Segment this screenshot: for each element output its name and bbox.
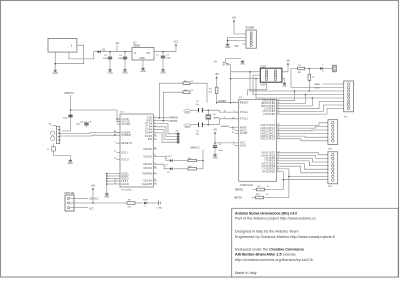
power +5V R1 xyxy=(215,74,220,81)
svg-text:+5V: +5V xyxy=(213,130,218,132)
svg-text:PWR: PWR xyxy=(143,199,148,201)
svg-text:GND: GND xyxy=(160,73,165,75)
wire PD2 to JP4 xyxy=(280,166,328,173)
node M8AREF xyxy=(221,125,235,128)
svg-text:M8TXD: M8TXD xyxy=(234,197,242,199)
title block text xyxy=(235,211,336,275)
ground jack xyxy=(53,68,58,75)
svg-text:GND: GND xyxy=(107,73,112,75)
wire RESET net xyxy=(216,94,239,104)
svg-text:VIN: VIN xyxy=(235,46,239,48)
wire PB3 riser xyxy=(280,97,313,106)
svg-text:16MHz: 16MHz xyxy=(213,117,220,119)
wire R11 to PD0 riser xyxy=(265,179,285,190)
resistor R9 470 xyxy=(127,200,144,209)
wire PD3 to JP4 xyxy=(280,164,328,170)
svg-text:AGND: AGND xyxy=(240,132,248,135)
svg-text:RESET: RESET xyxy=(240,103,249,105)
wire R12 to PD1 riser xyxy=(264,176,290,198)
ground power LED xyxy=(158,201,163,210)
svg-text:M8RXD: M8RXD xyxy=(235,189,243,191)
diode D1 xyxy=(98,49,107,54)
wire RTS to X3 xyxy=(157,124,177,134)
connector X4 USB xyxy=(49,124,60,144)
svg-text:CTS#: CTS# xyxy=(145,127,152,129)
resistor R7 470 xyxy=(291,65,305,88)
power VCC xyxy=(174,42,179,52)
resistor R6 1k xyxy=(308,69,315,92)
wire PD0 to JP4 xyxy=(280,172,328,180)
power +5V ICSP xyxy=(282,61,291,72)
svg-text:USBVCC: USBVCC xyxy=(190,148,200,150)
svg-text:RXD: RXD xyxy=(147,121,153,123)
svg-text:Arduino Nuova Generazione (NG: Arduino Nuova Generazione (NG) v.4.0 xyxy=(235,211,297,215)
svg-text:(ADC5)PC5: (ADC5)PC5 xyxy=(260,124,275,127)
svg-text:SLEEP#: SLEEP# xyxy=(142,184,153,186)
svg-text:USBVCC: USBVCC xyxy=(64,92,74,95)
svg-text:(ADC2)PC2: (ADC2)PC2 xyxy=(260,132,275,135)
wire USBDM xyxy=(60,135,120,137)
resistor R12 1k xyxy=(234,194,269,199)
connector ICSP xyxy=(260,66,282,86)
wire ADC3 to JP3 xyxy=(280,129,328,132)
connector X3 pads xyxy=(176,131,180,144)
svg-text:VCC: VCC xyxy=(89,209,94,211)
wire ICSP MOSI to JP2 xyxy=(231,78,344,98)
node USBVCC at PWR SEL xyxy=(79,198,99,200)
svg-text:Attribution-ShareAlike 2.5 Lic: Attribution-ShareAlike 2.5 License xyxy=(235,253,296,257)
LED L xyxy=(320,64,324,73)
svg-text:FT232RL: FT232RL xyxy=(121,190,133,192)
svg-text:USBVCC: USBVCC xyxy=(89,198,99,200)
ground C7 xyxy=(160,68,165,75)
connector SV1 PWR SEL xyxy=(65,193,80,211)
svg-text:USBDP: USBDP xyxy=(121,132,131,134)
capacitor C16 xyxy=(63,115,73,119)
svg-text:(ADC0)PC0: (ADC0)PC0 xyxy=(260,138,275,141)
wire +5V to POWER pin1 xyxy=(234,24,246,34)
svg-text:RESET#: RESET# xyxy=(121,143,132,145)
svg-text:ICSP: ICSP xyxy=(261,85,267,87)
wire LED to ground xyxy=(148,202,158,204)
wire RXD to M8TXD xyxy=(157,120,178,123)
ground C4 xyxy=(107,68,112,75)
inductor L1 xyxy=(47,144,55,151)
svg-text:(ADC1)PC1: (ADC1)PC1 xyxy=(260,135,275,138)
ground IC2 xyxy=(140,67,145,74)
wire PD7 to JP4 xyxy=(280,153,328,155)
svg-text:M8RXD: M8RXD xyxy=(170,118,178,120)
transistor IC1 ATMEGA8 body xyxy=(232,97,280,187)
svg-text:CBUS4: CBUS4 xyxy=(143,180,152,182)
svg-text:CBUS1: CBUS1 xyxy=(143,156,152,158)
svg-text:(INT1)PD3: (INT1)PD3 xyxy=(262,163,276,165)
ground USB xyxy=(68,159,73,166)
wire ADC4 to JP3 xyxy=(280,126,328,128)
svg-text:PWREN: PWREN xyxy=(142,174,152,176)
wire PD4 to JP4 xyxy=(280,161,328,166)
resistor R1 10k xyxy=(209,81,218,94)
svg-text:(AIN1)PD7: (AIN1)PD7 xyxy=(261,152,275,155)
capacitor C1 xyxy=(213,144,224,153)
svg-text:+9V: +9V xyxy=(115,43,120,45)
svg-text:Released under the Creative Co: Released under the Creative Commons xyxy=(235,248,304,252)
capacitor C4 xyxy=(103,52,112,68)
wire PD5 to JP4 xyxy=(280,158,328,162)
wire DTR to X3 xyxy=(157,130,177,140)
wire FT232 ground bus xyxy=(106,173,117,192)
wire jack pin2 to diode xyxy=(69,52,97,59)
svg-text:VCC: VCC xyxy=(240,143,246,145)
svg-text:AREF: AREF xyxy=(240,127,247,130)
svg-text:RTS#: RTS# xyxy=(145,123,152,125)
svg-text:-: - xyxy=(68,47,69,50)
wire PB1 riser xyxy=(280,105,344,111)
svg-text:(INT0)PD2: (INT0)PD2 xyxy=(262,166,276,168)
switch S1 xyxy=(214,59,241,66)
svg-text:(OC1)PB1: (OC1)PB1 xyxy=(262,111,275,113)
jumper LED header xyxy=(324,65,337,72)
svg-text:78M05: 78M05 xyxy=(133,45,141,47)
wire VCC rail xyxy=(154,51,176,53)
wire POWER gnd pins xyxy=(227,38,246,43)
wire ADC2 to JP3 xyxy=(280,133,328,135)
svg-text:XTAL2: XTAL2 xyxy=(240,118,249,121)
svg-text:GND: GND xyxy=(240,64,245,66)
svg-text:(RXD)PD0: (RXD)PD0 xyxy=(262,171,276,173)
svg-text:GND: GND xyxy=(68,163,73,165)
svg-text:VCC: VCC xyxy=(174,42,179,44)
wire CTS to X3 xyxy=(157,127,177,137)
svg-text:CBUS2: CBUS2 xyxy=(143,164,152,166)
svg-text:TXD: TXD xyxy=(147,118,152,120)
capacitor C3 22p xyxy=(190,123,209,136)
ground C1 xyxy=(212,153,217,160)
wire PD1 to JP4 xyxy=(280,169,328,177)
connector JP2 digital high xyxy=(344,81,354,119)
wire ICSP SCK to JP2 xyxy=(253,75,344,94)
svg-text:USBDM: USBDM xyxy=(121,135,131,137)
svg-text:VCC3B: VCC3B xyxy=(121,124,130,126)
wire jack pin1 down xyxy=(54,52,56,68)
svg-text:M8TXD: M8TXD xyxy=(170,121,178,123)
power +5V at PWR SEL xyxy=(91,186,96,204)
wire USB shield to ground xyxy=(54,151,71,159)
svg-text:GND: GND xyxy=(282,86,287,88)
svg-text:CBUS0: CBUS0 xyxy=(143,149,152,151)
svg-text:XTAL1: XTAL1 xyxy=(240,111,249,114)
LED RX xyxy=(157,155,173,162)
wire USBVCC vertical xyxy=(62,95,71,131)
svg-text:GND: GND xyxy=(104,197,109,199)
resistor R11 1k xyxy=(235,186,270,191)
svg-text:100n: 100n xyxy=(118,58,124,60)
svg-text:+5V: +5V xyxy=(286,61,291,63)
ground C3 xyxy=(184,124,191,128)
ground S1 xyxy=(240,60,245,66)
power jack X1 xyxy=(48,39,77,53)
op-amp IC3 FT232 body xyxy=(114,112,157,192)
svg-text:Engineered by Gianluca Martino: Engineered by Gianluca Martino http://ww… xyxy=(235,235,336,239)
svg-text:http://creativecommons.org/lic: http://creativecommons.org/licenses/by-s… xyxy=(235,258,314,262)
svg-text:OSCI: OSCI xyxy=(121,152,128,154)
wire LEDs to USBVCC xyxy=(190,148,204,169)
wire USBDP xyxy=(60,131,120,133)
svg-text:RI#: RI# xyxy=(148,139,153,141)
svg-text:Part of the Arduino project ht: Part of the Arduino project http://www.a… xyxy=(235,217,316,221)
svg-text:(AIN0)PD6: (AIN0)PD6 xyxy=(261,154,275,157)
voltage regulator IC2 78M05 xyxy=(132,43,154,61)
svg-text:Designed in Italy by the Ardui: Designed in Italy by the Arduino Team xyxy=(235,230,299,234)
wire TXD to M8RXD xyxy=(157,117,178,120)
svg-text:VI: VI xyxy=(134,52,137,55)
svg-text:Made in Italy: Made in Italy xyxy=(235,271,257,275)
ground ICSP xyxy=(282,78,287,87)
svg-text:GND: GND xyxy=(212,158,217,160)
wire R2 to M8RXD net xyxy=(190,83,207,103)
svg-text:ATMEGA8: ATMEGA8 xyxy=(240,184,254,187)
svg-text:DTR#: DTR# xyxy=(145,130,152,132)
capacitor C7 xyxy=(156,52,172,68)
wire ICSP RESET xyxy=(248,82,267,96)
svg-text:OSCO: OSCO xyxy=(121,159,129,161)
node VCC at PWR SEL xyxy=(79,208,94,211)
resistor R5 220 xyxy=(174,166,204,170)
wire USBVCC to FT232 VCC pins xyxy=(71,110,121,122)
resistor R3 xyxy=(163,90,194,121)
svg-text:+5V: +5V xyxy=(91,186,96,188)
capacitor C8 xyxy=(76,122,92,128)
svg-text:AVCC: AVCC xyxy=(240,129,247,132)
svg-text:DSR#: DSR# xyxy=(145,133,153,135)
ground C5 xyxy=(122,68,127,75)
capacitor C5 xyxy=(118,52,127,68)
wire DSR to X3 xyxy=(157,133,177,142)
wire S1 to reset net xyxy=(228,65,231,104)
svg-text:100n: 100n xyxy=(166,58,172,60)
wire ADC0 to JP3 xyxy=(280,139,328,141)
svg-text:(TXD)PD1: (TXD)PD1 xyxy=(262,169,275,171)
svg-text:GND: GND xyxy=(185,126,190,128)
wire XTAL1 from crystal bottom xyxy=(208,117,239,125)
wire PB4 riser xyxy=(280,94,306,104)
ground FT232 xyxy=(104,192,109,199)
svg-text:TEST: TEST xyxy=(121,181,128,183)
svg-text:(MOSI)PB3: (MOSI)PB3 xyxy=(261,106,276,108)
wire R7 to LED xyxy=(305,68,320,70)
wire power LED row xyxy=(79,202,127,204)
wire regulator GND xyxy=(142,60,144,67)
ground POWER xyxy=(225,43,230,50)
wire VIN pin xyxy=(235,44,247,48)
svg-text:(ICP)PB0: (ICP)PB0 xyxy=(263,114,276,116)
connector POWER xyxy=(246,28,257,49)
svg-text:AGND: AGND xyxy=(121,183,129,186)
svg-text:M8AREF: M8AREF xyxy=(221,125,230,128)
svg-text:GND: GND xyxy=(158,208,163,210)
svg-text:VO: VO xyxy=(147,52,151,55)
wire PD6 to JP4 xyxy=(280,156,328,159)
label USBVCC xyxy=(64,92,74,95)
wire ADC1 to JP3 xyxy=(280,136,328,137)
wire PB5 riser xyxy=(280,90,295,101)
wire +9V rail xyxy=(102,43,134,53)
crystal Q2 16MHz xyxy=(206,110,220,125)
LED PWR xyxy=(143,199,148,207)
svg-text:100u: 100u xyxy=(103,58,109,60)
wire ADC5 to JP3 xyxy=(280,123,328,126)
svg-text:AREF: AREF xyxy=(315,83,321,86)
resistor R4 220 xyxy=(174,158,204,162)
svg-text:DCD#: DCD# xyxy=(145,136,153,138)
svg-text:RESET: RESET xyxy=(219,100,228,103)
wire ICSP MISO to JP2 xyxy=(231,71,344,91)
svg-text:CBUS3: CBUS3 xyxy=(143,168,152,170)
wire PB0 riser xyxy=(280,109,344,115)
svg-text:GND: GND xyxy=(122,73,127,75)
wire jack switch pin to pin1 xyxy=(55,45,83,64)
svg-text:GND: GND xyxy=(240,145,246,147)
svg-text:(ADC3)PC3: (ADC3)PC3 xyxy=(260,130,275,133)
wire XTAL2 from crystal top xyxy=(208,109,239,112)
power +5V arrow xyxy=(232,18,237,25)
svg-text:(SCK)PB5: (SCK)PB5 xyxy=(262,101,275,103)
svg-text:(SS)PB2: (SS)PB2 xyxy=(264,109,275,111)
title block box xyxy=(232,208,399,277)
svg-text:GND: GND xyxy=(140,71,145,73)
svg-text:POWER: POWER xyxy=(246,28,255,30)
node AGND xyxy=(291,87,344,89)
wire PB2 riser xyxy=(280,102,344,109)
LED TX xyxy=(157,164,173,174)
svg-text:GND: GND xyxy=(53,73,58,75)
ground C2 xyxy=(184,109,191,113)
svg-text:GND: GND xyxy=(185,111,190,113)
svg-text:+5V: +5V xyxy=(215,74,220,76)
svg-text:(ADC4)PC4: (ADC4)PC4 xyxy=(260,127,275,130)
resistor R2 xyxy=(159,81,194,118)
connector JP3 analog xyxy=(328,120,338,151)
svg-text:-: - xyxy=(54,47,55,50)
svg-text:+5V: +5V xyxy=(232,18,237,20)
svg-text:GND: GND xyxy=(225,47,230,49)
svg-text:(T1)PD5: (T1)PD5 xyxy=(265,158,276,160)
connector JP4 digital low xyxy=(328,152,338,188)
node AREF xyxy=(315,83,345,86)
power +5V to VCC pin xyxy=(213,130,235,146)
svg-text:GND: GND xyxy=(140,58,145,60)
capacitor C2 22p xyxy=(190,101,209,113)
